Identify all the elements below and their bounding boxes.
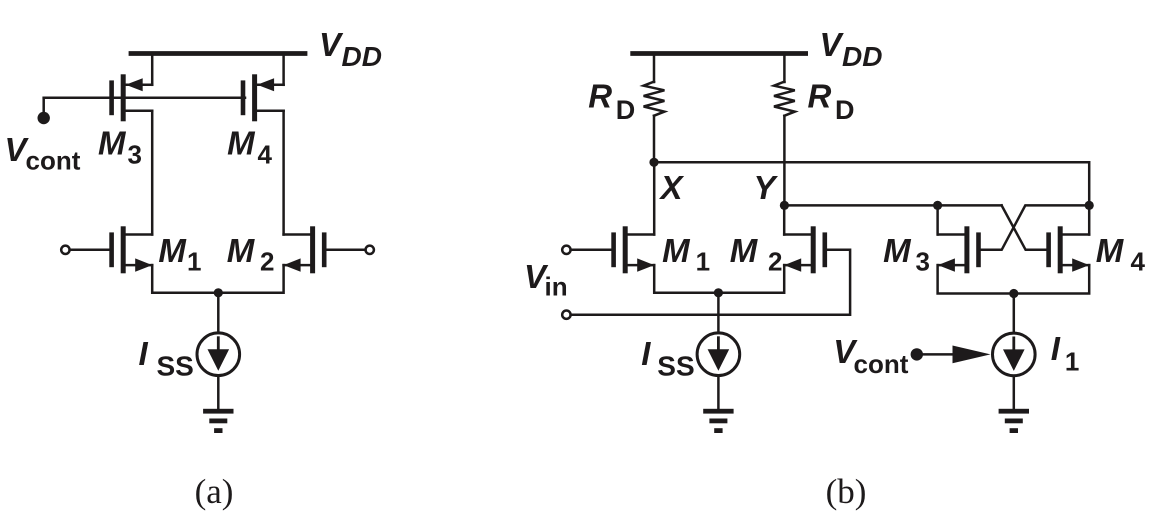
svg-text:2: 2: [768, 246, 782, 276]
svg-text:R: R: [588, 78, 612, 115]
svg-text:cont: cont: [854, 349, 909, 379]
node X dot: [649, 158, 658, 167]
svg-text:1: 1: [187, 246, 201, 276]
wire common source rail M3b-M4b: [938, 265, 1090, 293]
transistor M1 (b) NMOS: [611, 226, 654, 273]
svg-text:3: 3: [128, 139, 142, 169]
wire Vin bottom to M2b gate: [571, 250, 851, 315]
wire gate bus M3a-M4a to Vcont: [44, 97, 245, 100]
wire to I1: [1013, 294, 1016, 334]
wire VDD to RD left: [653, 54, 656, 83]
wire M3a drain to M1a drain: [151, 111, 154, 235]
current source I1: [993, 333, 1036, 376]
wire Vcont drop (a): [42, 98, 45, 116]
wire node X to M4b drain (top long wire): [654, 162, 1089, 205]
wire tail (b): [654, 265, 784, 293]
svg-text:M: M: [158, 232, 187, 269]
wire M2a gate: [326, 249, 365, 252]
label M1 (b): [662, 232, 710, 277]
svg-text:R: R: [808, 78, 832, 115]
label M4 (a): [227, 125, 272, 170]
label Vcont (b): [833, 333, 909, 379]
transistor M2 (b) NMOS mirrored: [784, 226, 827, 273]
ground I1: [999, 409, 1029, 433]
power rail VDD (b): [633, 51, 806, 56]
wire tail to ISS (b): [717, 293, 720, 333]
node Vcont terminal dot (a): [38, 112, 50, 124]
label M3 (b): [883, 232, 930, 277]
svg-text:M: M: [883, 232, 912, 269]
wire M1b drain to node X: [653, 162, 656, 234]
svg-text:4: 4: [258, 139, 273, 169]
wire M3b drain to node Y dot: [936, 205, 939, 234]
wire M4a source to VDD: [282, 54, 285, 85]
wire cross-couple M4 drain to M3 gate: [981, 205, 1089, 249]
node common source junction: [1009, 289, 1018, 298]
label Vcont (a): [5, 131, 81, 176]
svg-text:Y: Y: [754, 169, 779, 206]
input terminal (a) left: [61, 246, 69, 254]
wire RD left to node X: [653, 116, 656, 163]
svg-text:X: X: [659, 169, 685, 206]
svg-text:M: M: [730, 232, 759, 269]
svg-text:2: 2: [260, 246, 274, 276]
wire I1 to ground: [1013, 376, 1016, 409]
input terminal Vin top: [562, 246, 570, 254]
node Vcont terminal dot (b): [911, 348, 923, 360]
svg-text:3: 3: [916, 246, 930, 276]
node tail junction (a): [214, 288, 223, 297]
svg-text:DD: DD: [842, 41, 882, 72]
power rail VDD (a): [131, 51, 305, 56]
node tail junction (b): [714, 288, 723, 297]
svg-text:(a): (a): [195, 472, 234, 511]
wire ISS to ground (a): [217, 376, 220, 409]
node M4b drain dot: [1085, 201, 1094, 210]
wire M4b drain up: [1088, 205, 1091, 234]
current source ISS (b): [697, 333, 740, 376]
transistor M4 (b) NMOS: [1046, 226, 1089, 273]
wire Vcont to I1 arrow: [922, 353, 954, 356]
svg-text:I: I: [139, 335, 149, 372]
svg-text:M: M: [98, 125, 127, 162]
svg-text:SS: SS: [157, 350, 194, 381]
wire RD right to node Y: [783, 116, 786, 206]
node M3b drain dot: [933, 201, 942, 210]
label VDD (b): [820, 26, 883, 72]
label VDD (a): [319, 26, 382, 72]
resistor RD left: [644, 82, 665, 116]
wire node Y to M3b drain: [784, 204, 1001, 207]
svg-text:1: 1: [1065, 346, 1079, 376]
label I1: [1051, 330, 1080, 376]
label Vin: [524, 258, 568, 302]
svg-text:cont: cont: [26, 146, 81, 176]
current source ISS (a): [197, 333, 240, 376]
wire tail (a): [152, 265, 283, 293]
label M2 (b): [730, 232, 783, 277]
wire tail to ISS (a): [217, 293, 220, 333]
node Y dot: [780, 201, 789, 210]
label M1 (a): [158, 232, 201, 277]
wire VDD to RD right: [783, 54, 786, 83]
svg-text:D: D: [616, 95, 636, 125]
transistor M1 (a) NMOS: [109, 226, 152, 273]
svg-text:(b): (b): [826, 472, 867, 511]
svg-text:V: V: [319, 26, 344, 63]
svg-text:D: D: [835, 95, 855, 125]
label RD right: [808, 78, 855, 125]
wire ISS to ground (b): [717, 376, 720, 409]
svg-text:in: in: [545, 272, 568, 302]
wire M2b drain to node Y: [783, 205, 786, 234]
svg-text:M: M: [227, 125, 256, 162]
label RD left: [588, 78, 635, 125]
svg-text:SS: SS: [657, 350, 694, 381]
label M2 (a): [227, 232, 275, 277]
ground (a): [203, 409, 233, 433]
svg-text:V: V: [820, 26, 845, 63]
transistor M2 (a) NMOS mirrored: [284, 226, 327, 273]
transistor M3 (b) NMOS mirrored: [938, 226, 981, 273]
wire cross-couple M3 drain to M4 gate: [1002, 205, 1047, 249]
label ISS (a): [139, 335, 194, 382]
svg-text:M: M: [662, 232, 691, 269]
label ISS (b): [641, 335, 694, 382]
svg-text:M: M: [1096, 232, 1125, 269]
transistor M3 (a) PMOS: [109, 74, 152, 121]
label M3 (a): [98, 125, 142, 170]
input terminal Vin bottom: [562, 311, 570, 319]
wire M1b gate: [571, 249, 613, 252]
wire M4a drain to M2a drain: [282, 111, 285, 235]
svg-text:DD: DD: [342, 41, 382, 72]
resistor RD right: [774, 82, 795, 116]
svg-text:M: M: [227, 232, 256, 269]
wire M1a gate: [70, 249, 111, 252]
wire M3a source to VDD: [151, 54, 154, 85]
label M4 (b): [1096, 232, 1146, 277]
svg-text:I: I: [1051, 330, 1061, 367]
svg-text:1: 1: [696, 246, 710, 276]
svg-text:4: 4: [1131, 246, 1146, 276]
arrow Vcont control: [953, 346, 991, 364]
ground ISS (b): [703, 409, 733, 433]
svg-text:I: I: [641, 335, 651, 372]
input terminal (a) right: [366, 246, 374, 254]
transistor M4 (a) PMOS: [241, 74, 284, 121]
